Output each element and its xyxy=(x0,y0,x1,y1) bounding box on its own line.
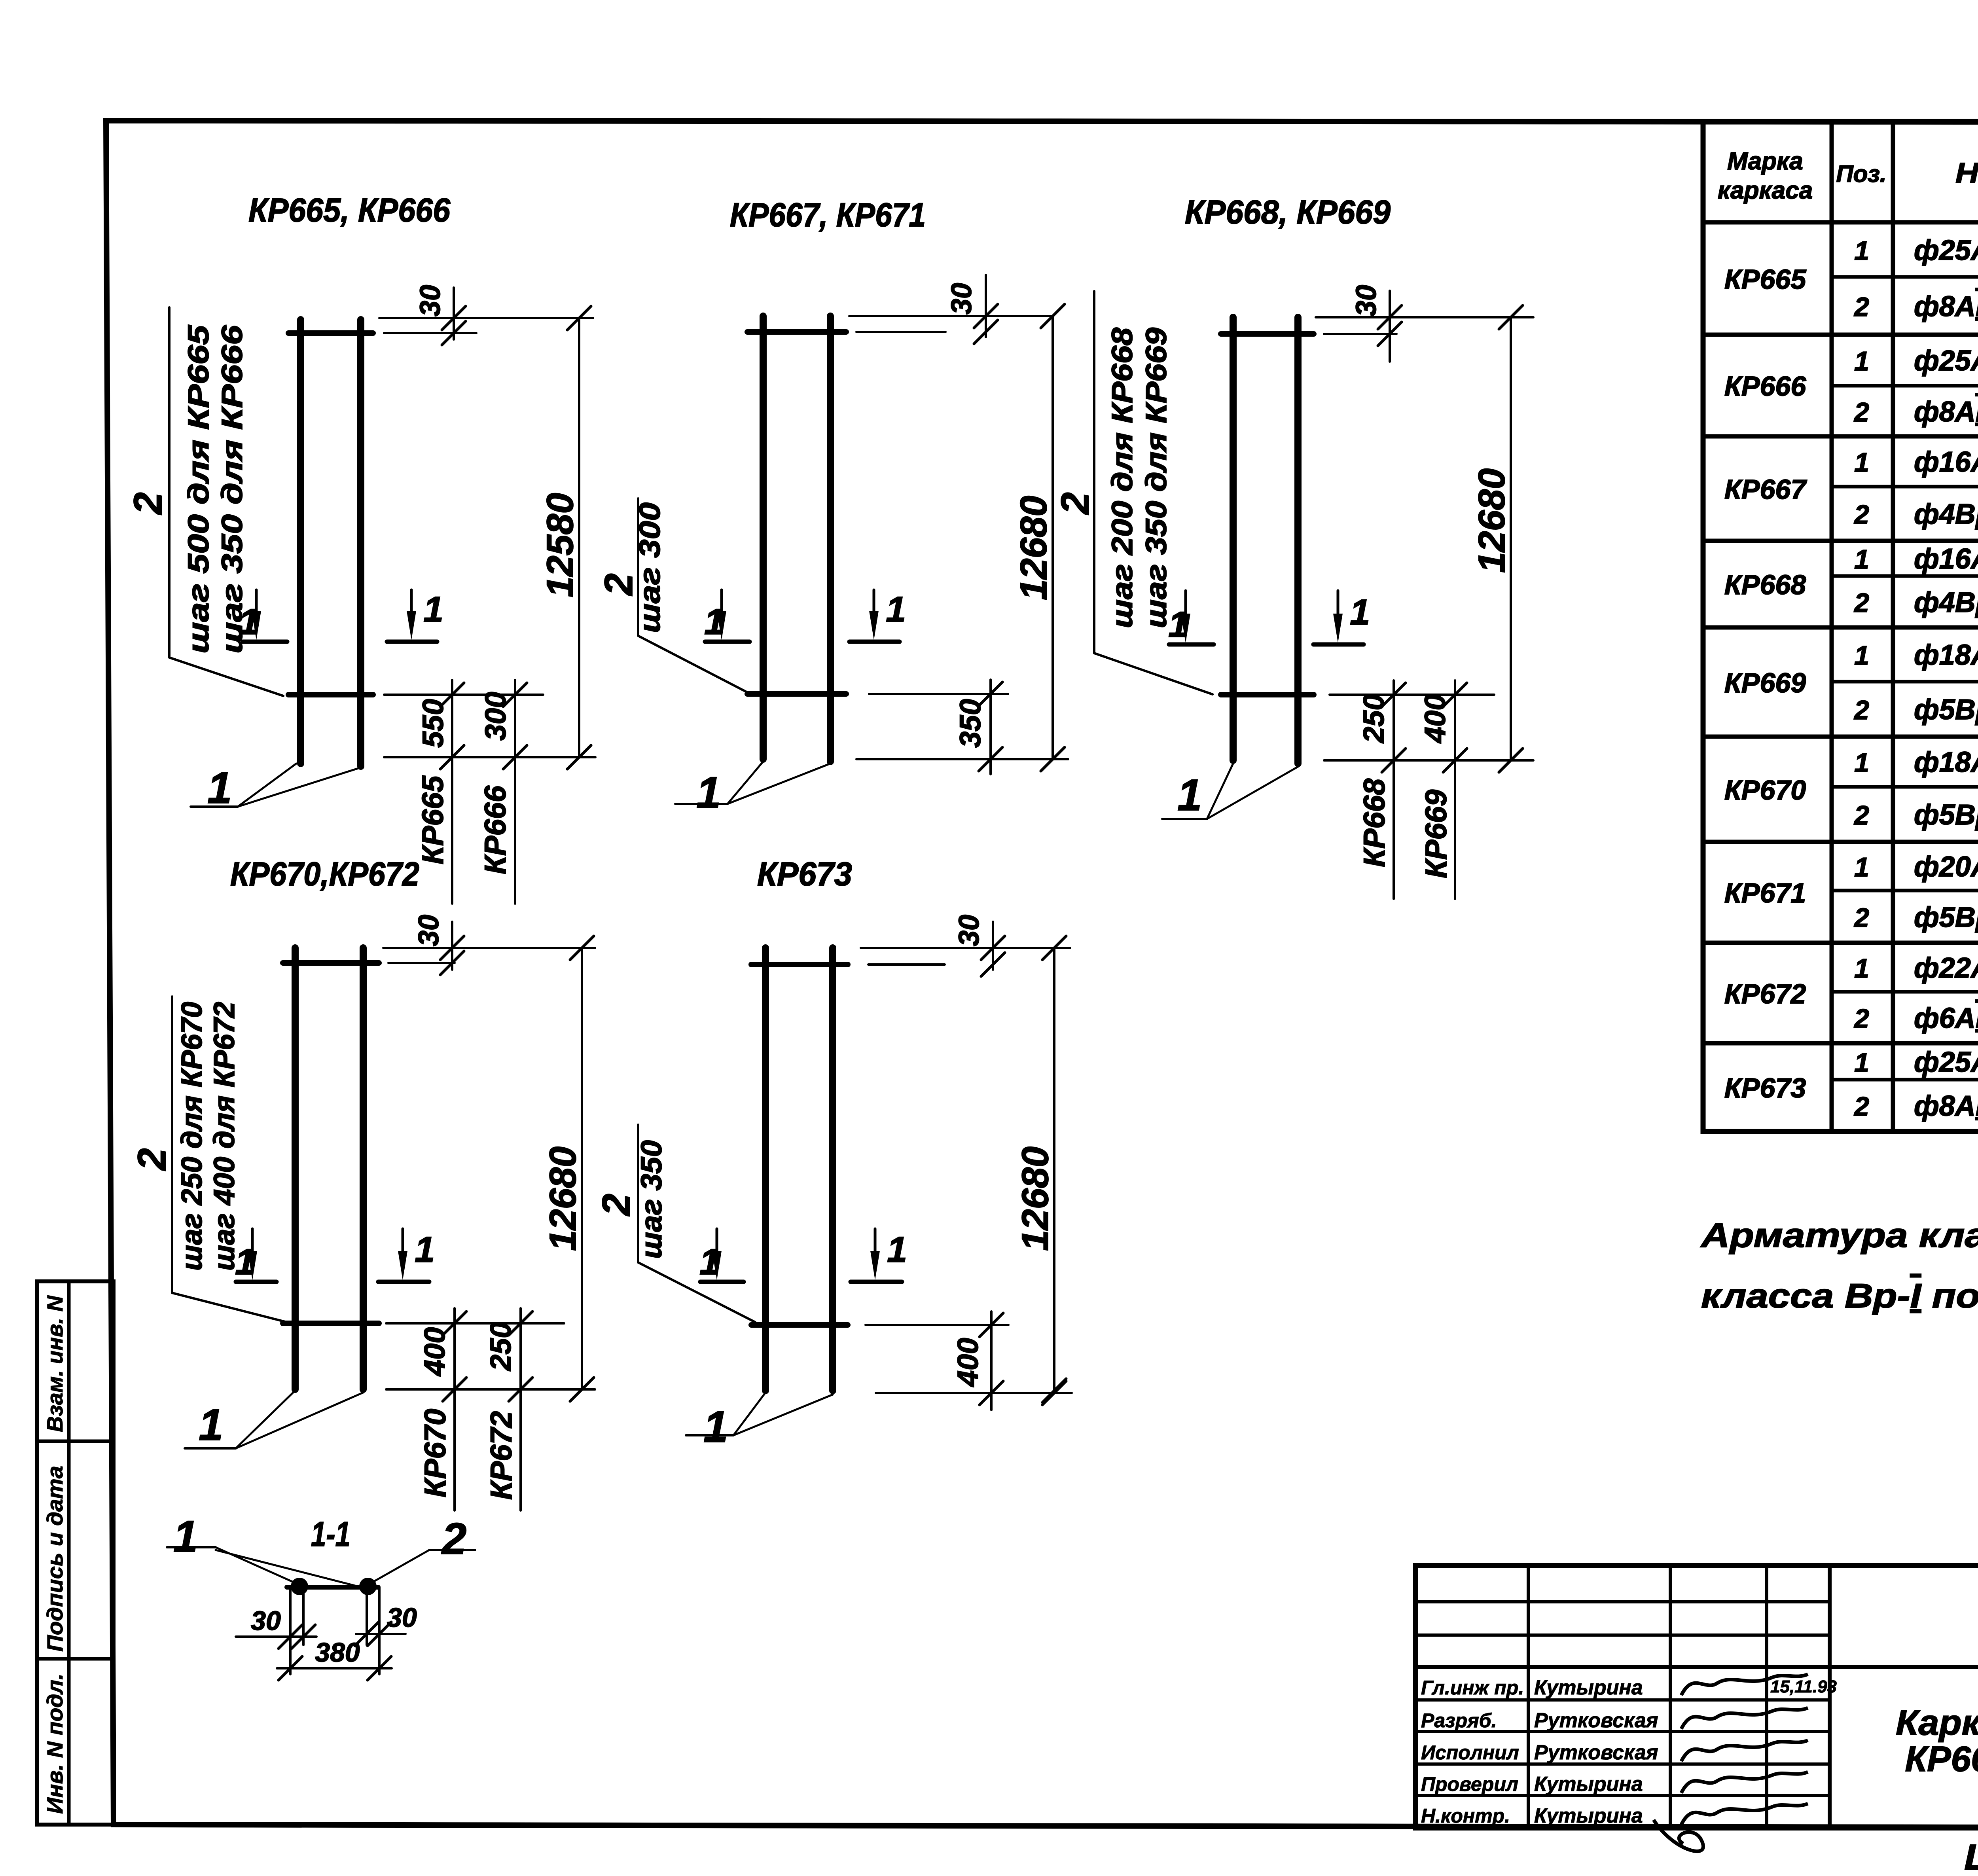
svg-text:1: 1 xyxy=(886,589,906,630)
KP665 section marker 1-1 left xyxy=(243,640,287,644)
svg-text:КР669: КР669 xyxy=(1419,790,1453,878)
svg-text:шаг 500 для КР665: шаг 500 для КР665 xyxy=(182,324,215,654)
svg-text:2: 2 xyxy=(1853,397,1869,427)
svg-text:ф18АШ ℓ=12680: ф18АШ ℓ=12680 xyxy=(1914,639,1978,671)
svg-text:Исполнил: Исполнил xyxy=(1421,1741,1519,1764)
svg-text:2: 2 xyxy=(1053,492,1097,515)
KP673 leader 2 with шаг 350 xyxy=(638,1125,755,1322)
svg-text:Разряб.: Разряб. xyxy=(1421,1709,1497,1732)
svg-text:2: 2 xyxy=(1853,588,1869,618)
svg-text:Поз.: Поз. xyxy=(1836,161,1886,187)
svg-text:ф22АШ ℓ=12680: ф22АШ ℓ=12680 xyxy=(1914,952,1978,984)
svg-text:1: 1 xyxy=(1854,346,1869,376)
svg-text:250: 250 xyxy=(484,1322,517,1372)
svg-text:Рутковская: Рутковская xyxy=(1534,1709,1658,1732)
KP668 leader 2 (tie spacing callout) xyxy=(1094,291,1213,694)
svg-text:ф25АШ ℓ=12580: ф25АШ ℓ=12580 xyxy=(1914,345,1978,377)
svg-text:400: 400 xyxy=(951,1338,984,1387)
svg-text:400: 400 xyxy=(1419,694,1451,744)
svg-text:Кутырина: Кутырина xyxy=(1534,1804,1643,1827)
svg-text:ф5ВрІ ℓ=380: ф5ВрІ ℓ=380 xyxy=(1914,902,1978,933)
svg-text:Взам. инв. N: Взам. инв. N xyxy=(42,1295,67,1432)
svg-text:30: 30 xyxy=(413,915,445,946)
svg-text:шаг 300: шаг 300 xyxy=(633,502,666,633)
svg-text:1: 1 xyxy=(1854,447,1869,478)
svg-text:1: 1 xyxy=(703,1402,728,1452)
svg-text:1: 1 xyxy=(699,1242,720,1282)
table group row lines xyxy=(1703,220,1978,225)
svg-text:ф8АІ ℓ=380: ф8АІ ℓ=380 xyxy=(1914,396,1978,428)
svg-text:1: 1 xyxy=(1854,953,1869,983)
svg-text:ф25АШ ℓ=12580: ф25АШ ℓ=12580 xyxy=(1914,235,1978,266)
KP667 bottom tie bar xyxy=(747,691,846,697)
svg-text:Н.контр.: Н.контр. xyxy=(1421,1805,1510,1827)
svg-text:1: 1 xyxy=(415,1230,435,1270)
KP668 top tie bar xyxy=(1221,331,1314,337)
svg-text:1: 1 xyxy=(1854,640,1869,671)
left margin stamp boxes xyxy=(37,1281,114,1825)
KP667 section marker 1-1 right xyxy=(849,640,900,644)
KP673 bottom tie bar xyxy=(751,1322,848,1328)
svg-text:550: 550 xyxy=(417,699,449,748)
svg-text:1: 1 xyxy=(704,602,724,642)
svg-text:ф16АШ ℓ=12680: ф16АШ ℓ=12680 xyxy=(1914,446,1978,478)
svg-text:ф4ВрІ ℓ=380: ф4ВрІ ℓ=380 xyxy=(1914,498,1978,530)
svg-text:30: 30 xyxy=(251,1606,281,1636)
svg-text:ф8АШ ℓ=380: ф8АШ ℓ=380 xyxy=(1914,1090,1978,1122)
svg-text:1: 1 xyxy=(235,1242,255,1282)
KP673 top tie bar xyxy=(751,962,848,967)
KP667 leader 2 with шаг 300 xyxy=(638,498,747,692)
KP673 bottom dimension 400 xyxy=(990,1311,993,1410)
KP668 section marker 1-1 left xyxy=(1169,642,1214,647)
KP667 dimension 12680 xyxy=(1052,316,1054,759)
section 1-1 dimension 30 right xyxy=(356,1633,405,1635)
KP667 bar 2 xyxy=(827,316,834,762)
KP667 top tie bar xyxy=(747,329,846,335)
table outer border xyxy=(1703,121,1978,1131)
svg-text:КР671: КР671 xyxy=(1724,877,1806,908)
svg-text:КР665: КР665 xyxy=(1724,264,1807,295)
KP665 leader 2 (tie spacing callout) xyxy=(169,307,283,696)
svg-text:Инв. N подл.: Инв. N подл. xyxy=(42,1673,67,1814)
svg-text:2: 2 xyxy=(597,573,641,596)
svg-text:КР672: КР672 xyxy=(485,1411,518,1500)
svg-text:Арматура класса А-Ш и А-І: Арматура класса А-Ш и А-І по ГОСТ 5781-8… xyxy=(1700,1217,1978,1254)
svg-text:КР672: КР672 xyxy=(1724,978,1806,1009)
svg-text:Наименование: Наименование xyxy=(1955,157,1978,189)
title block outer frame xyxy=(1415,1565,1978,1828)
svg-text:2: 2 xyxy=(130,1148,174,1171)
svg-text:30: 30 xyxy=(1351,285,1382,316)
svg-text:15,11.93: 15,11.93 xyxy=(1770,1677,1837,1696)
svg-text:1: 1 xyxy=(1854,748,1869,778)
KP670 bottom dimension lines 400 and 250 xyxy=(453,1308,456,1510)
section 1-1 dimension 380 xyxy=(277,1667,392,1669)
svg-text:1: 1 xyxy=(1177,770,1202,820)
svg-text:30: 30 xyxy=(387,1603,417,1633)
svg-text:Гл.инж пр.: Гл.инж пр. xyxy=(1421,1677,1524,1699)
signature flourish below title block xyxy=(1654,1820,1703,1851)
svg-text:шаг 250 для КР670: шаг 250 для КР670 xyxy=(175,1002,208,1271)
svg-text:12680: 12680 xyxy=(1014,1146,1056,1251)
KP665 bottom tie bar xyxy=(288,692,373,697)
svg-text:Проверил: Проверил xyxy=(1421,1773,1518,1795)
svg-text:1: 1 xyxy=(1854,544,1869,574)
KP668 bar 2 xyxy=(1294,317,1302,764)
KP665 bar 2 (right longitudinal bar) xyxy=(357,320,364,766)
svg-text:ф25АШ ℓ=12680: ф25АШ ℓ=12680 xyxy=(1914,1046,1978,1078)
svg-text:12580: 12580 xyxy=(539,493,581,597)
svg-text:2: 2 xyxy=(1853,1004,1869,1034)
svg-text:ф5ВрІ ℓ=380: ф5ВрІ ℓ=380 xyxy=(1914,799,1978,831)
KP668 bar 1 xyxy=(1230,317,1237,760)
svg-text:Марка: Марка xyxy=(1727,148,1803,175)
KP668 dimension 30 at top xyxy=(1316,316,1533,318)
svg-text:12680: 12680 xyxy=(1471,468,1513,573)
svg-text:1-1: 1-1 xyxy=(311,1514,351,1554)
svg-text:ф8АІ ℓ=380: ф8АІ ℓ=380 xyxy=(1914,291,1978,322)
svg-text:1: 1 xyxy=(423,589,443,630)
svg-text:ф18АШ ℓ=12680: ф18АШ ℓ=12680 xyxy=(1914,747,1978,778)
svg-text:КР668: КР668 xyxy=(1358,778,1391,867)
KP670 bar 2 xyxy=(360,948,367,1389)
svg-text:Каркас плоский: Каркас плоский xyxy=(1896,1703,1978,1743)
KP670 section marker 1-1 left xyxy=(236,1280,277,1284)
KP668 bottom tie bar xyxy=(1221,692,1314,697)
svg-text:КР665: КР665 xyxy=(416,775,450,864)
title block signature table lines xyxy=(1415,1600,1830,1603)
svg-text:КР665... КР673: КР665... КР673 xyxy=(1905,1740,1978,1779)
svg-text:2: 2 xyxy=(1853,695,1869,725)
svg-text:1: 1 xyxy=(1854,236,1869,266)
table subrow divider lines xyxy=(1832,275,1978,279)
table column lines xyxy=(1830,121,1834,1131)
KP667 bottom dimension 350 xyxy=(989,680,992,774)
KP668 bottom dimension lines 250 and 400 xyxy=(1393,680,1395,899)
svg-text:КР669: КР669 xyxy=(1724,667,1806,698)
svg-text:350: 350 xyxy=(954,699,987,748)
KP670 dimension 12680 xyxy=(581,948,583,1389)
svg-text:2: 2 xyxy=(1853,292,1869,322)
svg-text:шаг 350 для КР669: шаг 350 для КР669 xyxy=(1140,328,1173,628)
svg-text:КР668: КР668 xyxy=(1724,569,1806,600)
svg-text:Подпись и дата: Подпись и дата xyxy=(42,1466,67,1652)
svg-text:30: 30 xyxy=(953,915,985,946)
KP673 bar 1 xyxy=(762,948,769,1391)
KP670 leader 2 (tie spacing callout) xyxy=(172,997,287,1322)
svg-text:ф5ВрІ ℓ=380: ф5ВрІ ℓ=380 xyxy=(1914,694,1978,726)
svg-text:КР670: КР670 xyxy=(419,1409,452,1497)
KP667 section marker 1-1 left xyxy=(705,640,750,644)
KP668 dimension 12680 xyxy=(1510,317,1512,760)
svg-text:1: 1 xyxy=(173,1512,198,1561)
section 1-1 bar 2 cross-section dot xyxy=(359,1578,377,1595)
svg-text:Кутырина: Кутырина xyxy=(1534,1676,1643,1699)
svg-text:30: 30 xyxy=(946,283,978,315)
svg-text:1: 1 xyxy=(207,763,232,813)
svg-text:2: 2 xyxy=(441,1514,466,1563)
svg-text:1: 1 xyxy=(1168,604,1188,645)
KP673 section marker 1-1 left xyxy=(700,1280,744,1284)
KP665 section marker 1-1 right xyxy=(387,640,437,644)
svg-text:250: 250 xyxy=(1357,694,1390,744)
svg-text:2: 2 xyxy=(594,1194,638,1217)
svg-text:каркаса: каркаса xyxy=(1718,177,1813,204)
svg-text:1: 1 xyxy=(1350,592,1370,633)
KP665 bar 1 (left longitudinal bar) xyxy=(297,320,304,764)
svg-text:КР666: КР666 xyxy=(479,785,512,874)
KP670 dimension 30 at top xyxy=(383,947,595,949)
svg-text:класса Вр-І по ГОСТ 6727-80: класса Вр-І по ГОСТ 6727-80 xyxy=(1701,1277,1978,1315)
svg-text:1: 1 xyxy=(1854,852,1869,882)
svg-text:1: 1 xyxy=(1854,1048,1869,1078)
svg-text:ф16АШ ℓ=12680: ф16АШ ℓ=12680 xyxy=(1914,543,1978,575)
KP670 bottom tie bar xyxy=(283,1321,379,1326)
svg-text:шаг 400 для КР672: шаг 400 для КР672 xyxy=(208,1002,241,1271)
svg-text:12680: 12680 xyxy=(1013,496,1055,600)
svg-text:Рутковская: Рутковская xyxy=(1534,1741,1658,1764)
svg-text:400: 400 xyxy=(418,1327,451,1377)
svg-text:1: 1 xyxy=(239,602,259,642)
title block signatures (squiggles) xyxy=(1681,1674,1808,1695)
svg-text:ф6АІ ℓ=380: ф6АІ ℓ=380 xyxy=(1914,1002,1978,1034)
svg-text:2: 2 xyxy=(1853,1091,1869,1122)
KP667 dimension 30 at top xyxy=(849,315,1052,317)
svg-text:2: 2 xyxy=(1853,800,1869,830)
svg-text:Кутырина: Кутырина xyxy=(1534,1773,1643,1796)
svg-text:ф20АШ ℓ=12680: ф20АШ ℓ=12680 xyxy=(1914,851,1978,883)
section 1-1 witness lines xyxy=(289,1587,292,1674)
KP673 section marker 1-1 right xyxy=(851,1280,902,1284)
svg-text:12680: 12680 xyxy=(542,1146,584,1251)
svg-text:Ц00176-03 35: Ц00176-03 35 xyxy=(1964,1837,1978,1874)
svg-text:КР666: КР666 xyxy=(1724,371,1807,402)
svg-text:КР673: КР673 xyxy=(757,855,852,893)
svg-text:1: 1 xyxy=(887,1230,907,1270)
KP673 dimension 12680 xyxy=(1053,948,1055,1391)
svg-text:1: 1 xyxy=(696,768,721,817)
svg-text:КР668, КР669: КР668, КР669 xyxy=(1185,193,1391,231)
svg-text:шаг 200 для КР668: шаг 200 для КР668 xyxy=(1106,327,1139,628)
section 1-1 bar 1 cross-section dot xyxy=(291,1578,308,1595)
svg-text:2: 2 xyxy=(126,492,170,515)
KP670 bar 1 xyxy=(292,948,299,1389)
svg-text:КР665, КР666: КР665, КР666 xyxy=(248,191,451,229)
svg-text:КР667, КР671: КР667, КР671 xyxy=(730,196,926,233)
svg-text:2: 2 xyxy=(1853,500,1869,530)
KP665 dimension 12580 xyxy=(578,318,580,757)
svg-text:300: 300 xyxy=(479,692,512,741)
svg-text:30: 30 xyxy=(415,285,446,316)
svg-text:КР673: КР673 xyxy=(1724,1073,1806,1103)
KP673 dimension 30 at top xyxy=(861,947,1070,949)
svg-text:380: 380 xyxy=(315,1637,360,1668)
svg-text:1: 1 xyxy=(199,1400,223,1450)
KP670 section marker 1-1 right xyxy=(378,1280,429,1284)
section 1-1 dimension 30 left xyxy=(236,1635,316,1638)
section 1-1 tie bar (horizontal) xyxy=(287,1585,378,1590)
svg-text:2: 2 xyxy=(1853,903,1869,933)
KP673 bar 2 xyxy=(829,948,836,1391)
KP665 bottom dimension lines 550 and 300 xyxy=(451,680,453,904)
KP665 top tie bar xyxy=(288,330,373,336)
KP667 bar 1 xyxy=(760,316,767,759)
svg-text:шаг 350: шаг 350 xyxy=(635,1140,668,1259)
svg-text:КР670: КР670 xyxy=(1724,775,1806,805)
svg-text:ф4ВрІ ℓ=380: ф4ВрІ ℓ=380 xyxy=(1914,587,1978,618)
svg-text:КР667: КР667 xyxy=(1724,474,1807,505)
svg-text:КР670,КР672: КР670,КР672 xyxy=(230,855,419,893)
KP670 top tie bar xyxy=(283,960,379,966)
KP665 dimension 30 at top xyxy=(379,317,593,319)
KP668 section marker 1-1 right xyxy=(1313,642,1364,647)
